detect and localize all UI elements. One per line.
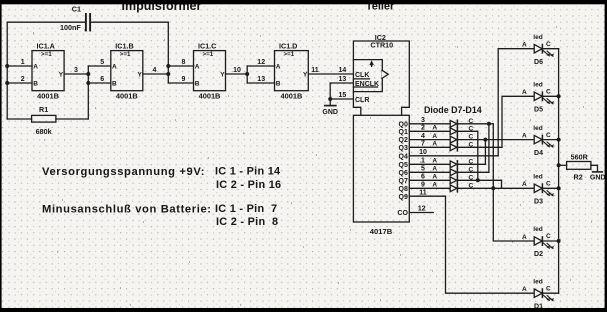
svg-text:A: A <box>522 234 527 241</box>
NOR gate IC1.A (4001B) <box>32 51 64 91</box>
wire Q7 to diode D13 <box>409 179 450 181</box>
svg-text:A: A <box>432 166 437 173</box>
svg-text:>=1: >=1 <box>41 51 52 58</box>
wire LED D3 cathode to bus <box>542 187 558 189</box>
frame top bar <box>0 0 607 4</box>
svg-text:4: 4 <box>153 67 157 74</box>
wire diode D10 cathode to bus <box>457 146 502 148</box>
svg-text:A: A <box>432 174 437 181</box>
wire bus to R2 <box>559 164 567 166</box>
wire LED D2 cathode to bus <box>542 240 558 242</box>
junction bus junction at D4 <box>557 138 561 142</box>
wire bus Q1 down to Q7 row <box>477 131 479 180</box>
svg-text:12: 12 <box>418 206 426 213</box>
LED D5 emission arrows <box>543 98 553 104</box>
wire bus Q4 up to D6 <box>498 49 534 156</box>
wire pin 11 IC1.D output to IC2 CLK pin 14 <box>308 73 353 75</box>
resistor R1 body <box>32 115 56 122</box>
LED D2 <box>534 237 542 245</box>
svg-text:B: B <box>112 80 117 87</box>
svg-text:IC 1 - Pin 7: IC 1 - Pin 7 <box>215 203 277 215</box>
diode D7 <box>450 120 457 127</box>
svg-text:Q2: Q2 <box>399 137 408 144</box>
LED D1 emission arrows <box>543 295 553 301</box>
wire CO pin 12 stub <box>409 212 433 214</box>
svg-text:3: 3 <box>74 67 78 74</box>
wire LED D5 cathode to bus <box>542 95 558 97</box>
svg-text:13: 13 <box>257 76 265 83</box>
svg-text:1: 1 <box>421 158 425 165</box>
svg-text:A: A <box>33 63 38 70</box>
svg-text:C: C <box>546 132 551 139</box>
svg-text:GND: GND <box>590 175 606 182</box>
wire Q4 direct wire <box>409 155 498 157</box>
svg-text:CTR10: CTR10 <box>370 40 393 49</box>
svg-text:Q9: Q9 <box>399 194 408 201</box>
svg-text:Q7: Q7 <box>399 178 408 185</box>
wire bus Q5 up to D4 row <box>484 140 486 165</box>
svg-text:A: A <box>432 182 437 189</box>
junction bus junction at D5 <box>557 94 561 98</box>
svg-text:6: 6 <box>100 76 104 83</box>
svg-text:Y: Y <box>59 72 64 79</box>
svg-text:>=1: >=1 <box>203 51 214 58</box>
junction junction Q5 joins D4 row <box>483 138 487 142</box>
svg-text:D3: D3 <box>534 199 543 206</box>
svg-text:C: C <box>468 174 473 181</box>
LED D6 emission arrows <box>543 51 553 57</box>
svg-text:13: 13 <box>339 76 347 83</box>
wire bus Q7 step down to D3 row <box>501 180 503 188</box>
frame bottom bar <box>0 308 607 312</box>
svg-text:3: 3 <box>421 117 425 124</box>
wire diode D11 cathode to bus <box>457 163 485 165</box>
wire bus Q0 down to D2 <box>493 124 534 241</box>
wire LED D6 cathode to bus <box>542 48 558 50</box>
diode D14 <box>450 185 457 192</box>
svg-text:CLR: CLR <box>355 97 369 104</box>
wire pin 1 into IC1.A <box>7 65 32 67</box>
svg-text:D4: D4 <box>534 150 543 157</box>
svg-text:680k: 680k <box>36 127 52 136</box>
svg-text:100nF: 100nF <box>60 23 81 32</box>
svg-text:C1: C1 <box>72 5 81 14</box>
svg-text:CO: CO <box>397 210 408 217</box>
wire node4 vertical <box>246 66 248 83</box>
wire pin 9 into IC1.C <box>168 82 193 84</box>
wire pin 10 IC1.C output <box>226 73 248 75</box>
svg-text:A: A <box>195 63 200 70</box>
wire top wire C1 to node4 <box>90 21 168 23</box>
junction node2 at pin 3 <box>86 72 90 76</box>
svg-text:A: A <box>522 42 527 49</box>
LED D1 <box>534 289 542 297</box>
svg-text:Y: Y <box>138 72 143 79</box>
wire diode D12 cathode to bus <box>457 171 489 173</box>
svg-text:Y: Y <box>303 72 308 79</box>
svg-text:Y: Y <box>220 72 225 79</box>
svg-text:A: A <box>522 132 527 139</box>
svg-text:C: C <box>468 141 473 148</box>
svg-text:Minusanschluß von Batterie:: Minusanschluß von Batterie: <box>42 204 212 216</box>
svg-text:IC1.B: IC1.B <box>115 41 133 50</box>
svg-text:C: C <box>468 118 473 125</box>
svg-text:>=1: >=1 <box>284 51 295 58</box>
LED D4 emission arrows <box>543 142 553 148</box>
wire Q2 to diode D9 <box>409 139 450 141</box>
svg-text:B: B <box>276 80 281 87</box>
IC2 clock inner box <box>353 60 382 92</box>
svg-text:IC1.A: IC1.A <box>37 41 55 50</box>
svg-text:5: 5 <box>100 59 104 66</box>
svg-text:8: 8 <box>182 59 186 66</box>
svg-text:7: 7 <box>421 141 425 148</box>
diode D8 <box>450 128 457 135</box>
capacitor C1 plates <box>86 14 90 31</box>
junction rail at pin 2 <box>5 81 9 85</box>
wire pin 12 into IC1.D <box>247 65 274 67</box>
junction junction on D3 row <box>491 186 495 190</box>
wire Q5 to diode D11 <box>409 163 450 165</box>
diode D9 <box>450 136 457 143</box>
wire R1 right to node2 <box>56 118 88 120</box>
svg-text:C: C <box>468 158 473 165</box>
svg-text:C: C <box>468 166 473 173</box>
svg-text:C: C <box>546 233 551 240</box>
wire Q0 to diode D7 <box>409 123 450 125</box>
wire diode D7 cathode to bus <box>457 123 493 125</box>
wire pin 4 IC1.B output <box>143 73 169 75</box>
resistor R2 body <box>567 162 591 170</box>
junction bus junction at R2 tap <box>557 163 561 167</box>
svg-text:A: A <box>432 141 437 148</box>
junction junction Q1/Q7 net <box>476 178 480 182</box>
svg-text:2: 2 <box>21 76 25 83</box>
svg-text:C: C <box>546 41 551 48</box>
svg-text:4001B: 4001B <box>37 92 59 101</box>
svg-text:A: A <box>432 133 437 140</box>
IC2 output block outline <box>353 115 409 222</box>
NOR gate IC1.B (4001B) <box>111 51 143 91</box>
svg-text:11: 11 <box>419 189 427 196</box>
svg-text:R1: R1 <box>39 105 48 114</box>
wire diode D8 cathode to bus <box>457 130 477 132</box>
svg-text:Q5: Q5 <box>399 162 408 169</box>
LED D2 emission arrows <box>543 243 553 249</box>
svg-text:C: C <box>546 89 551 96</box>
wire bus Q3 up to D5 <box>502 96 534 147</box>
wire left rail from C1 to R1 <box>6 22 8 119</box>
svg-text:D5: D5 <box>534 107 543 114</box>
svg-text:C: C <box>468 134 473 141</box>
svg-text:IC1.D: IC1.D <box>279 41 297 50</box>
svg-text:C: C <box>546 285 551 292</box>
wire node2 vertical <box>87 66 89 119</box>
svg-text:>=1: >=1 <box>120 51 131 58</box>
underline of CLK pin name <box>353 78 369 80</box>
wire diode D9 cathode to bus <box>457 139 534 141</box>
wire top wire rail to C1 <box>7 21 86 23</box>
wire Q6 to diode D12 <box>409 171 450 173</box>
svg-text:11: 11 <box>311 67 319 74</box>
junction bus junction at D3 <box>557 186 561 190</box>
junction node2 at pin 6 <box>86 81 90 85</box>
wire bus Q6 up to Q0 row <box>488 124 490 173</box>
NOR gate IC1.D (4001B) <box>275 51 309 91</box>
svg-text:B: B <box>195 80 200 87</box>
wire Q8 to diode D14 <box>409 187 450 189</box>
svg-text:4: 4 <box>421 133 425 140</box>
svg-text:Diode D7-D14: Diode D7-D14 <box>424 105 482 115</box>
diode D10 <box>450 144 457 151</box>
svg-text:IC 1 - Pin 14: IC 1 - Pin 14 <box>215 166 280 178</box>
junction node4 at pin 10 <box>245 72 249 76</box>
svg-text:6: 6 <box>421 174 425 181</box>
wire bus Q9 down to D1 <box>446 196 535 293</box>
svg-text:A: A <box>432 158 437 165</box>
svg-text:B: B <box>33 80 38 87</box>
svg-text:led: led <box>533 226 542 233</box>
wire LED D4 cathode to bus <box>542 139 558 141</box>
wire GND branch vertical <box>329 83 331 105</box>
wire IC2 ENCLK pin 13 wire <box>330 82 353 84</box>
svg-text:led: led <box>533 125 542 132</box>
wire pin 3 IC1.A output <box>64 73 88 75</box>
junction junction Q6 joins Q0 row <box>487 122 491 126</box>
junction node3 at pin 4 <box>166 72 170 76</box>
svg-text:Q1: Q1 <box>399 129 408 136</box>
svg-text:A: A <box>522 286 527 293</box>
svg-text:C: C <box>468 182 473 189</box>
wire node3 vertical <box>167 22 169 83</box>
svg-text:12: 12 <box>257 59 265 66</box>
wire Q3 to diode D10 <box>409 146 450 148</box>
IC2 clock edge triangle <box>382 70 388 78</box>
diode D12 <box>450 169 457 176</box>
svg-text:15: 15 <box>339 92 347 99</box>
svg-text:A: A <box>276 63 281 70</box>
svg-text:IC 2 - Pin 16: IC 2 - Pin 16 <box>216 179 281 191</box>
svg-text:4001B: 4001B <box>281 92 303 101</box>
wire diode D14 cathode to bus <box>457 187 534 189</box>
junction node3 at pin 8 <box>166 64 170 68</box>
svg-text:IC 2 - Pin 8: IC 2 - Pin 8 <box>216 216 278 228</box>
wire rail to R1 left <box>7 118 31 120</box>
wire pin 6 into IC1.B <box>88 82 111 84</box>
svg-text:Versorgungsspannung +9V:: Versorgungsspannung +9V: <box>42 166 205 178</box>
svg-text:A: A <box>432 125 437 132</box>
frame right bar <box>605 0 607 312</box>
svg-text:IC1.C: IC1.C <box>198 41 216 50</box>
junction rail at pin 1 <box>5 64 9 68</box>
underline of ENCLK pin name <box>353 86 377 88</box>
svg-text:C: C <box>468 125 473 132</box>
svg-text:led: led <box>533 82 542 89</box>
svg-text:A: A <box>522 89 527 96</box>
wire IC2 CLR pin 15 wire <box>330 98 353 100</box>
svg-text:4001B: 4001B <box>116 92 138 101</box>
LED D4 <box>534 135 542 143</box>
diode D11 <box>450 161 457 168</box>
svg-text:Q4: Q4 <box>399 153 408 160</box>
LED D3 <box>534 184 542 192</box>
svg-text:CLK: CLK <box>355 72 369 79</box>
svg-text:Q6: Q6 <box>399 170 408 177</box>
diode D13 <box>450 177 457 184</box>
svg-text:led: led <box>533 174 542 181</box>
svg-text:10: 10 <box>419 149 427 156</box>
LED D6 <box>534 45 542 53</box>
wire pin 13 into IC1.D <box>247 82 274 84</box>
LED D3 emission arrows <box>543 190 553 196</box>
ground symbol at IC2 <box>325 105 336 107</box>
svg-text:A: A <box>112 63 117 70</box>
svg-text:D6: D6 <box>534 59 543 66</box>
LED D5 <box>534 92 542 100</box>
svg-text:R2: R2 <box>574 173 583 182</box>
junction junction ENCLK/CLR to GND <box>328 97 332 101</box>
svg-text:10: 10 <box>233 67 241 74</box>
wire pin 8 into IC1.C <box>168 65 193 67</box>
IC2 dynamic input arrow <box>370 62 373 67</box>
IC2 4017B counter CTR10 control block outline <box>353 41 409 115</box>
svg-text:GND: GND <box>322 109 338 116</box>
svg-text:D2: D2 <box>534 251 543 258</box>
svg-text:9: 9 <box>182 76 186 83</box>
junction bus junction at D2 <box>557 239 561 243</box>
wire pin 5 into IC1.B <box>88 65 111 67</box>
svg-text:C: C <box>546 181 551 188</box>
ground symbol at R2 <box>593 171 603 173</box>
wire diode D13 cathode to bus <box>457 179 501 181</box>
svg-text:led: led <box>533 34 542 41</box>
svg-text:9: 9 <box>421 182 425 189</box>
svg-text:Q8: Q8 <box>399 186 408 193</box>
svg-text:A: A <box>522 181 527 188</box>
wire pin 2 into IC1.A <box>7 82 32 84</box>
svg-text:led: led <box>533 278 542 285</box>
frame left bar <box>0 0 2 312</box>
wire Q9 direct wire <box>409 195 445 197</box>
svg-text:4001B: 4001B <box>199 92 221 101</box>
wire LED D1 cathode to bus <box>542 292 558 294</box>
svg-text:14: 14 <box>339 67 347 74</box>
svg-text:ENCLK: ENCLK <box>355 81 379 88</box>
svg-text:1: 1 <box>21 59 25 66</box>
svg-text:Q0: Q0 <box>399 121 408 128</box>
wire Q1 to diode D8 <box>409 130 450 132</box>
svg-text:5: 5 <box>421 166 425 173</box>
svg-text:560R: 560R <box>571 152 589 161</box>
wire R2 to ground <box>591 165 598 171</box>
svg-text:4017B: 4017B <box>370 227 393 236</box>
svg-text:2: 2 <box>421 125 425 132</box>
svg-text:Q3: Q3 <box>399 145 408 152</box>
wire LED cathode bus <box>558 49 560 294</box>
NOR gate IC1.C (4001B) <box>194 51 226 91</box>
